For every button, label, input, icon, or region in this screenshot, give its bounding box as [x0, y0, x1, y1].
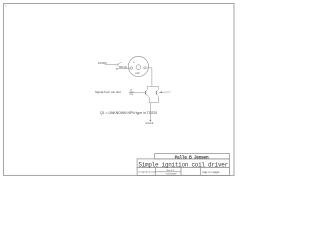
svg-text:Palle B Jensen: Palle B Jensen [175, 154, 209, 160]
corner scan speck [5, 5, 7, 7]
svg-text:Rev 1.0: Rev 1.0 [167, 170, 175, 172]
title block [137, 154, 229, 176]
border frame [4, 4, 235, 176]
coil terminal + [130, 67, 133, 70]
transistor Q1 emitter arrowhead [146, 94, 149, 97]
transistor Q1 base bar [144, 91, 146, 94]
transistor Q2 emitter slant [157, 94, 159, 96]
title block row3 box [137, 167, 229, 175]
coil index dot [133, 62, 134, 63]
transistor Q2 base bar [155, 91, 157, 94]
transistor Q1 emitter slant [146, 94, 148, 96]
row3 divider rev cell right [180, 167, 182, 175]
row3 rev/date split [155, 171, 181, 173]
wire emitter bottom bar [149, 102, 158, 104]
wire arrowhead at switch [115, 63, 117, 66]
svg-text:Designed by name: Designed by name [138, 171, 156, 173]
title block row2 box [137, 159, 229, 167]
wire Q1 collector drop [146, 86, 148, 89]
svg-text:17/07/2009: 17/07/2009 [165, 174, 177, 176]
svg-text:Ground: Ground [146, 122, 154, 125]
resistor R1 [129, 91, 133, 93]
wire coil - terminal down to collectors [146, 68, 152, 87]
title block row1 box [155, 154, 230, 159]
wire Q2 emitter to bottom bar [157, 96, 159, 103]
transistor Q2 collector slant [157, 90, 158, 92]
svg-text:coil: coil [135, 71, 139, 75]
row3 divider designed-by [154, 167, 156, 175]
wire Q2 collector drop [157, 86, 159, 89]
svg-text:Simple ignition coil driver: Simple ignition coil driver [138, 162, 228, 169]
svg-text:Page N of pages: Page N of pages [202, 172, 220, 174]
output arrowhead [159, 92, 162, 94]
wire switch to coil + terminal [117, 68, 130, 70]
svg-text:Q1 = UNKNOWN NPN type in TO220: Q1 = UNKNOWN NPN type in TO220 [100, 111, 157, 115]
transistor Q1 collector slant [146, 90, 147, 92]
switch SW ignition [117, 64, 118, 65]
wire Q1 emitter to bottom bar [148, 96, 149, 102]
coil HT center terminal [136, 65, 141, 70]
ignition coil T1 body [128, 56, 148, 76]
wire collector top bar [147, 85, 158, 87]
ground symbol arrowhead [149, 120, 151, 122]
row3 divider page cell left [199, 167, 201, 175]
svg-text:Signal from car dist.: Signal from car dist. [95, 90, 122, 94]
wire to ground [149, 103, 151, 120]
wire base R1 to Q1 [134, 92, 146, 94]
output arrow line [159, 91, 171, 93]
coil terminal - [144, 67, 146, 69]
wire 12V supply to switch [105, 64, 116, 66]
